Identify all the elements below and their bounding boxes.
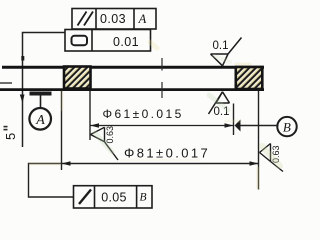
- datum A stem: [40, 96, 42, 109]
- dimension line phi81 with leader to FCF3: [29, 164, 259, 198]
- parallelism slash symbol: [79, 190, 91, 205]
- roughness symbol 0.63 left (rotated): [91, 127, 119, 160]
- leader from FCFs: [23, 33, 65, 148]
- centerline: [161, 58, 163, 98]
- thickness text 5'' rotated: [3, 133, 18, 140]
- datum A thick base bar: [30, 92, 52, 96]
- datum B triangle on extension line: [235, 120, 241, 132]
- roughness symbol 0.1 bottom (inverted): [209, 92, 230, 114]
- arrowhead on upper face: [21, 56, 24, 61]
- bottom face line: [0, 88, 264, 91]
- svg-text:A: A: [138, 12, 147, 26]
- datum circle A: [29, 108, 51, 130]
- datum circle B: [277, 117, 296, 136]
- svg-text:B: B: [283, 119, 291, 134]
- dimension line phi61: [90, 125, 234, 127]
- parallelism symbol: [78, 12, 94, 26]
- leader arrowhead on lower face: [20, 95, 25, 104]
- svg-text:A: A: [35, 113, 45, 128]
- svg-text:0.05: 0.05: [101, 190, 127, 204]
- feature control frame FCF3 parallelism 0.05 B: [74, 186, 153, 208]
- left section hatch: [64, 67, 91, 89]
- svg-text:Φ81±0.017: Φ81±0.017: [124, 146, 210, 161]
- top face line: [2, 66, 264, 69]
- svg-text:5: 5: [3, 133, 18, 140]
- extension line phi81 right: [258, 91, 260, 190]
- roughness symbol 0.1 top: [211, 38, 242, 66]
- svg-text:Φ61±0.015: Φ61±0.015: [103, 107, 184, 121]
- svg-text:0.01: 0.01: [113, 35, 139, 49]
- feature control frame FCF1 parallelism 0.03 A: [72, 9, 156, 30]
- roughness symbol 0.63 right (rotated): [260, 144, 284, 172]
- svg-text:B: B: [139, 191, 146, 203]
- flatness symbol: [72, 36, 88, 45]
- feature control frame FCF2 flatness 0.01: [65, 30, 151, 52]
- extension line phi81 left: [61, 91, 63, 170]
- extension line phi61 left: [89, 91, 91, 140]
- svg-text:0.03: 0.03: [100, 12, 126, 26]
- right section hatch: [236, 67, 262, 89]
- svg-text:0.63: 0.63: [105, 126, 115, 144]
- stray dash left edge: [0, 82, 12, 84]
- extension line phi61 right: [233, 104, 235, 136]
- svg-text:0.1: 0.1: [213, 40, 229, 52]
- scan tint smudges: [30, 42, 280, 188]
- leader to datum B circle: [241, 125, 279, 127]
